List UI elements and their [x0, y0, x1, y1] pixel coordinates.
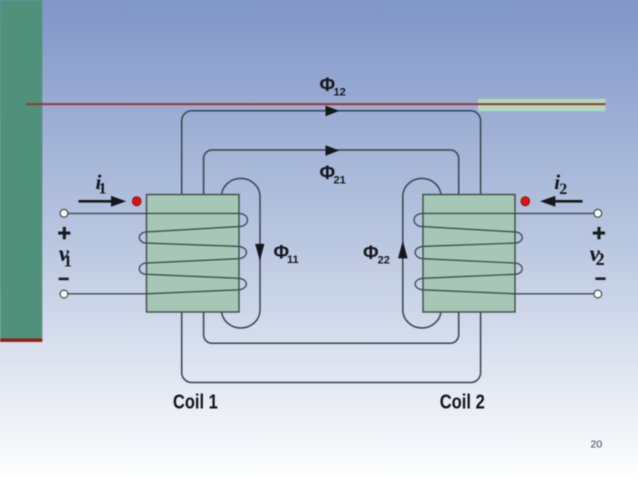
- svg-text:Φ: Φ: [363, 243, 379, 264]
- svg-text:Coil 2: Coil 2: [440, 392, 485, 414]
- svg-text:Coil 1: Coil 1: [173, 392, 218, 414]
- svg-text:2: 2: [596, 249, 605, 269]
- svg-text:20: 20: [591, 439, 603, 451]
- svg-text:2: 2: [559, 181, 567, 198]
- svg-text:12: 12: [334, 86, 346, 98]
- svg-text:21: 21: [334, 175, 346, 187]
- svg-text:1: 1: [99, 180, 107, 197]
- svg-text:22: 22: [378, 254, 390, 266]
- svg-text:1: 1: [64, 252, 73, 271]
- svg-text:11: 11: [287, 254, 299, 266]
